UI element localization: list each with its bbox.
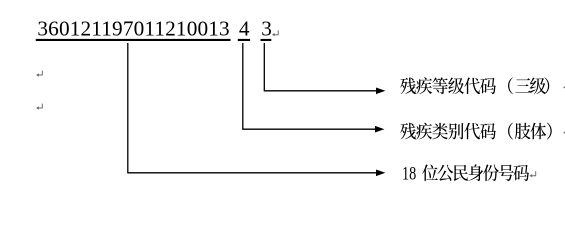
label: disability grade code (grade 3)	[400, 77, 496, 94]
svg-text:360121197011210013: 360121197011210013	[37, 17, 229, 41]
svg-text:18: 18	[402, 164, 416, 185]
svg-text:4: 4	[239, 17, 250, 41]
line-break mark after category label	[563, 128, 565, 134]
parenthetical: limb	[508, 123, 552, 140]
svg-text:3: 3	[261, 17, 272, 41]
underline under 3	[261, 39, 272, 41]
parenthetical: grade 3	[508, 77, 549, 94]
label: disability category code (limb)	[400, 123, 496, 140]
line-break mark after id label	[529, 171, 535, 177]
wire from id number to id label	[127, 43, 377, 173]
arrowhead to id label	[376, 170, 385, 177]
arrowhead to category label	[375, 126, 384, 133]
line-break mark after digits	[272, 30, 278, 36]
arrowhead to grade label	[376, 88, 385, 95]
line-break mark margin 1	[36, 71, 42, 77]
wire from digit 4 to category label	[242, 43, 376, 129]
line-break mark after grade label	[563, 83, 565, 89]
cjk part of id label	[422, 164, 529, 181]
wire from digit 3 to grade label	[264, 43, 377, 91]
underline under 4	[238, 39, 250, 41]
line-break mark margin 2	[36, 104, 42, 110]
underline under id number	[36, 39, 231, 41]
